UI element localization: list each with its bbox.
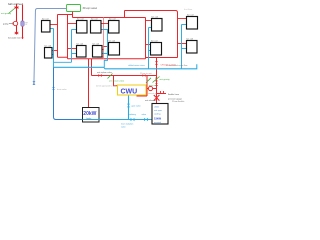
svg-text:22mm pipework to unit: 22mm pipework to unit <box>96 85 117 88</box>
svg-text:first floor: first floor <box>184 8 193 11</box>
svg-text:isolating: isolating <box>129 113 136 116</box>
svg-text:30l exp vessel: 30l exp vessel <box>83 8 98 10</box>
svg-text:nominal: nominal <box>154 122 162 124</box>
svg-text:22mm to unit: 22mm to unit <box>140 72 152 75</box>
svg-text:main isolation: main isolation <box>121 123 133 126</box>
svg-text:fan coil: fan coil <box>45 45 52 47</box>
svg-text:fan coil: fan coil <box>187 38 194 40</box>
svg-text:22mm flexible: 22mm flexible <box>172 101 185 103</box>
svg-text:chilled water return: chilled water return <box>128 64 145 67</box>
svg-text:anti gravity: anti gravity <box>1 12 12 15</box>
svg-text:anti siphon valve: anti siphon valve <box>97 71 113 74</box>
svg-text:20kW: 20kW <box>83 111 96 117</box>
svg-text:fan coil: fan coil <box>93 43 100 45</box>
svg-text:bath cold feed: bath cold feed <box>8 3 24 6</box>
svg-text:15kW: 15kW <box>154 117 161 121</box>
svg-text:fan coil: fan coil <box>91 18 98 20</box>
svg-text:fan coil: fan coil <box>151 40 158 42</box>
svg-text:fan coil: fan coil <box>152 16 159 18</box>
svg-text:anti vibration: anti vibration <box>145 99 156 102</box>
svg-text:pump: pump <box>3 24 9 26</box>
svg-text:fan coil: fan coil <box>187 14 194 16</box>
svg-text:fan coil: fan coil <box>42 18 49 20</box>
svg-text:drain valve: drain valve <box>57 89 68 91</box>
svg-text:unit spec: unit spec <box>154 109 162 112</box>
svg-text:fan coil: fan coil <box>77 18 84 20</box>
svg-text:valve: valve <box>121 127 127 129</box>
svg-text:chiller: chiller <box>154 107 160 109</box>
svg-text:hot water riser: hot water riser <box>8 37 21 40</box>
svg-text:fan coil: fan coil <box>77 43 84 45</box>
svg-text:flexible hose: flexible hose <box>168 94 180 96</box>
svg-text:anti freeze valve: anti freeze valve <box>109 80 125 83</box>
svg-text:CH riser to plant: CH riser to plant <box>161 63 176 66</box>
svg-text:CWU: CWU <box>121 88 138 95</box>
svg-text:fan coil: fan coil <box>109 18 116 20</box>
svg-text:valve: valve <box>142 114 148 116</box>
svg-text:gate valve: gate valve <box>149 84 159 87</box>
svg-text:fan coil: fan coil <box>109 40 116 42</box>
svg-text:gate valve: gate valve <box>132 105 142 108</box>
svg-text:anti gravity: anti gravity <box>160 78 171 81</box>
svg-text:cooling: cooling <box>154 114 160 116</box>
